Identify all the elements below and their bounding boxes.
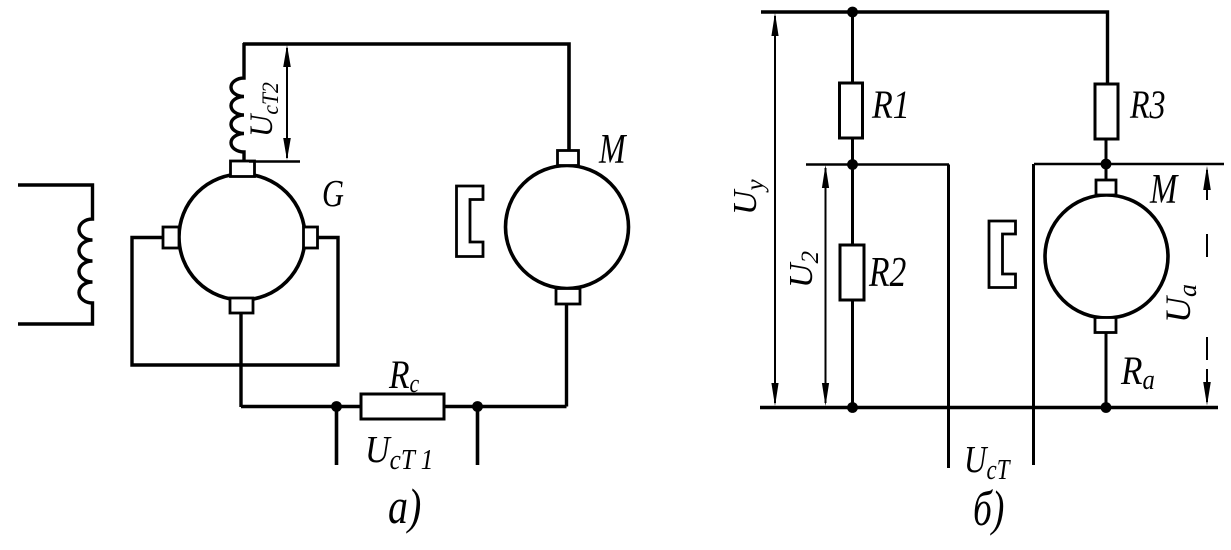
brush (G top): [231, 161, 255, 177]
junction (motor branch to bottom bus): [1101, 402, 1112, 413]
wire (armature loop: G left brush - down - across - up - G right brush): [132, 238, 338, 366]
brush (M top, b): [1096, 180, 1116, 195]
winding L1 (drive machine field, far left): [18, 185, 93, 324]
svg-text:M: M: [1149, 166, 1179, 213]
winding Uст2 (G excitation coil) + wire up to top bus: [231, 43, 244, 161]
wire (bottom bus b): [760, 406, 1218, 410]
wire (top bus b): [761, 12, 1108, 84]
generator G: [179, 174, 305, 300]
brush (M bottom, b): [1095, 318, 1116, 333]
wire (right stator terminal Uст, vertical): [1032, 164, 1035, 465]
junction (top bus / R1 branch): [847, 7, 858, 18]
wire (stub below right junction, Uст1 terminal): [476, 407, 480, 465]
wire (node line from divider tap to left stator terminal): [806, 163, 949, 166]
brush (G bottom): [230, 298, 253, 313]
brush (M bottom): [556, 289, 580, 305]
svg-text:R2: R2: [868, 250, 906, 296]
resistor R3: [1095, 84, 1118, 139]
resistor R1: [840, 83, 863, 138]
svg-text:R3: R3: [1129, 83, 1165, 127]
brush symbol (stationary brush mark, figure б): [989, 221, 1016, 288]
wire (M bottom brush down to bus): [565, 302, 568, 407]
junction (R3 / motor node): [1101, 159, 1112, 170]
junction (R2 to bottom bus): [847, 402, 858, 413]
wire (stub below left junction, Uст1 terminal): [335, 407, 339, 465]
dimension arrow U2 (tap voltage): [825, 168, 827, 403]
wire (G bottom brush down to stator bus): [239, 312, 242, 407]
svg-text:б): б): [973, 481, 1004, 536]
wire (left stator terminal Uст, vertical): [947, 165, 950, 469]
motor M (figure б): [1045, 195, 1168, 318]
svg-text:a): a): [388, 479, 421, 534]
brush (G right): [304, 227, 318, 248]
junction (divider tap node): [847, 159, 858, 170]
svg-text:G: G: [322, 173, 344, 215]
resistor R2: [840, 245, 864, 300]
dimension arrow Uст2 (between top bus and G brush): [249, 48, 300, 162]
svg-text:R1: R1: [871, 84, 910, 128]
wire (bottom bus with Rc, from G drop to M drop): [241, 405, 567, 408]
wire (motor branch: R3 down through M to bottom bus): [1105, 139, 1108, 407]
junction (left of Rc): [331, 401, 342, 412]
brush (M top): [558, 151, 579, 166]
junction (right of Rc): [472, 401, 483, 412]
motor M (figure a): [506, 166, 629, 289]
brush symbol (stationary brush mark, figure a): [457, 186, 484, 257]
wire (R1-R2 divider branch): [851, 12, 854, 407]
dimension arrow Uy (full supply voltage): [774, 16, 776, 403]
wire (node line over motor branch): [1034, 163, 1224, 166]
wire (top bus from coil over to M): [243, 44, 569, 152]
brush (G left): [163, 227, 179, 248]
resistor Rc: [361, 394, 444, 419]
svg-text:M: M: [598, 127, 627, 173]
dimension arrow Ua (armature voltage, dashed): [1206, 170, 1208, 402]
